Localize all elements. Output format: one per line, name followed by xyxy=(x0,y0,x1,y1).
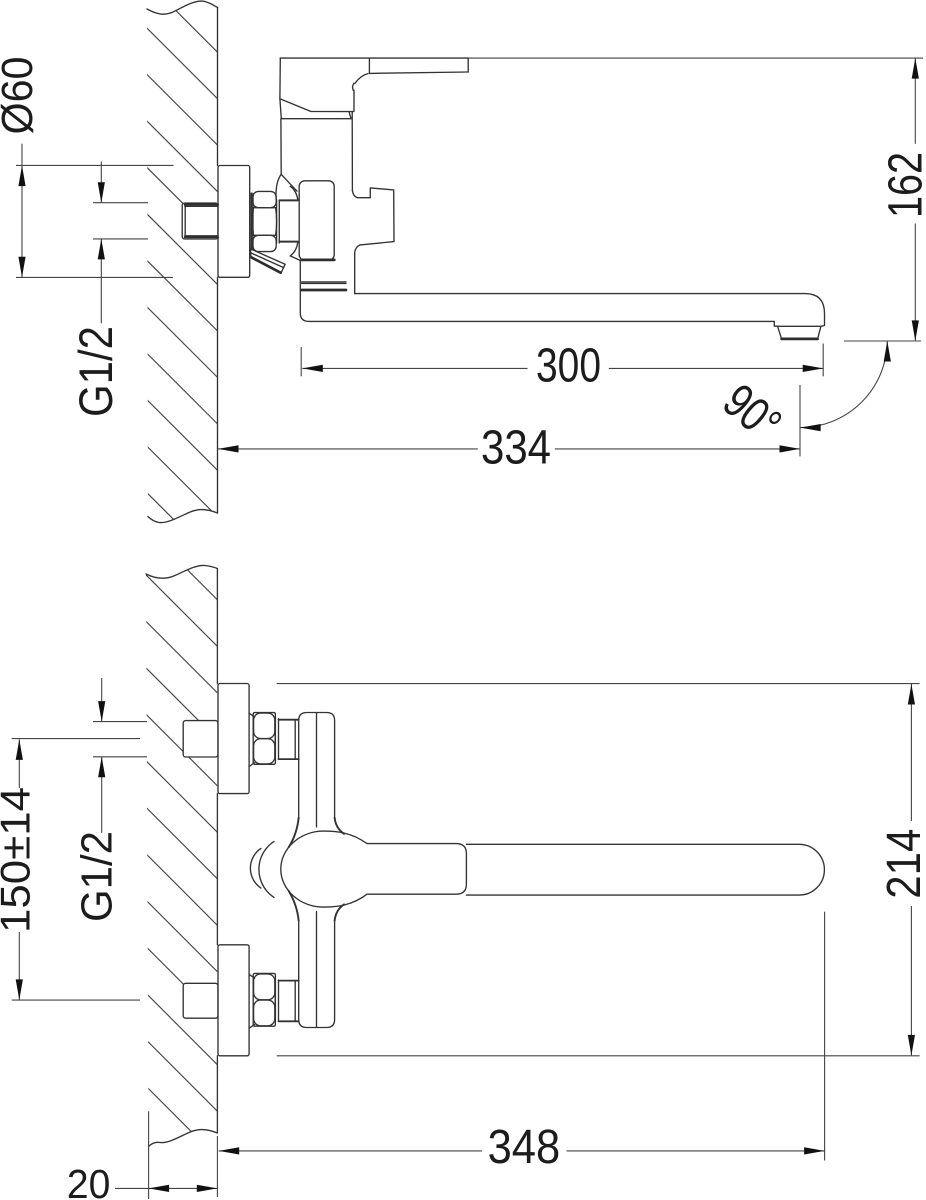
svg-text:Ø60: Ø60 xyxy=(0,57,42,135)
svg-text:348: 348 xyxy=(488,1121,561,1174)
svg-text:334: 334 xyxy=(481,422,551,475)
svg-text:214: 214 xyxy=(878,829,926,899)
svg-text:162: 162 xyxy=(880,152,926,218)
svg-text:G1/2: G1/2 xyxy=(69,326,122,417)
svg-text:20: 20 xyxy=(67,1161,111,1200)
svg-text:300: 300 xyxy=(536,340,601,393)
svg-text:150±14: 150±14 xyxy=(0,787,38,933)
svg-text:G1/2: G1/2 xyxy=(73,831,122,922)
